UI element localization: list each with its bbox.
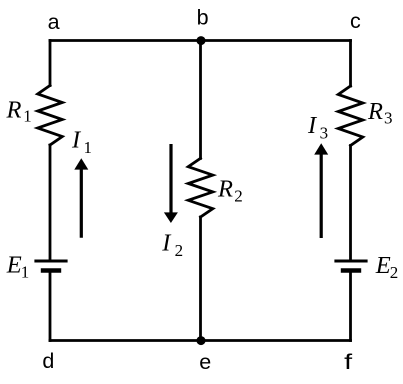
- svg-text:R: R: [6, 96, 22, 123]
- svg-text:E: E: [6, 252, 22, 279]
- svg-text:2: 2: [175, 241, 184, 260]
- svg-text:R: R: [217, 176, 233, 203]
- svg-text:c: c: [350, 9, 361, 33]
- svg-text:d: d: [42, 349, 54, 373]
- svg-text:1: 1: [23, 107, 32, 126]
- svg-text:E: E: [375, 252, 391, 279]
- svg-text:2: 2: [234, 187, 243, 206]
- svg-text:2: 2: [390, 263, 399, 282]
- svg-text:e: e: [199, 350, 211, 374]
- svg-text:3: 3: [384, 109, 393, 128]
- svg-text:a: a: [48, 10, 60, 34]
- svg-text:R: R: [367, 98, 383, 125]
- svg-text:3: 3: [320, 124, 329, 143]
- svg-text:f: f: [344, 350, 352, 374]
- svg-text:b: b: [197, 6, 209, 30]
- svg-text:1: 1: [84, 138, 93, 157]
- svg-text:1: 1: [21, 263, 30, 282]
